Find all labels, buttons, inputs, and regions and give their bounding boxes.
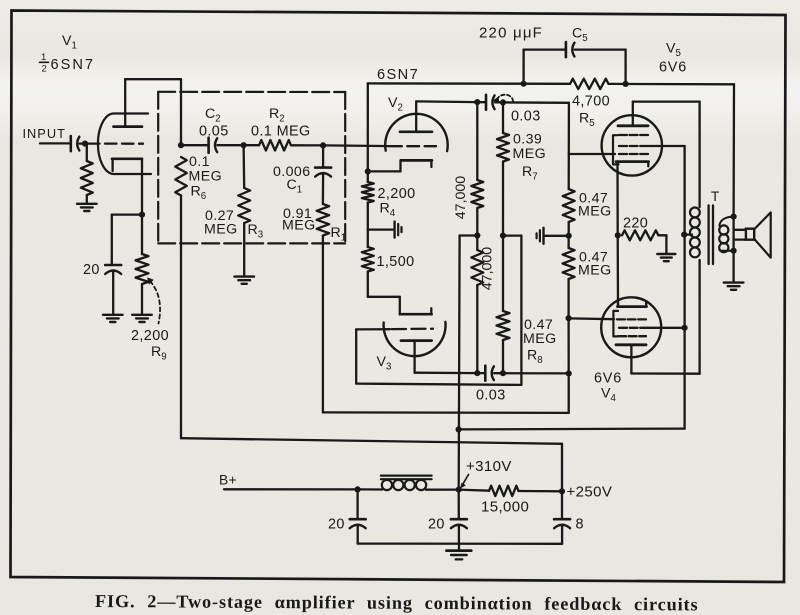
svg-text:1: 1 (41, 52, 46, 63)
V4 cathode (618, 302, 647, 306)
+310V arrow (460, 475, 469, 489)
ground 20uF (103, 315, 123, 322)
label 4,700 (572, 94, 610, 110)
wire to V2 grid (323, 144, 389, 147)
label INPUT (23, 126, 66, 141)
resistor 0.47MEG upper (563, 154, 575, 236)
svg-text:220: 220 (623, 216, 648, 232)
wire R6 bottom feedback line (181, 438, 562, 491)
label MEG (R3) (204, 222, 238, 238)
V5 grid bracket (613, 135, 619, 164)
wire C5 right leg (575, 50, 626, 84)
V3 plate lead (413, 341, 415, 373)
label 15,000 (481, 499, 529, 516)
node R7 top (500, 99, 506, 105)
label 0.47 upper (579, 191, 608, 207)
resistor 15000 (459, 486, 519, 496)
wire input lead (40, 142, 70, 144)
wire 15000 to +250 (519, 490, 563, 493)
caption (95, 591, 699, 614)
node secondary bottom (731, 248, 737, 254)
ground secondary (724, 283, 744, 290)
transformer secondary winding (719, 217, 733, 253)
V3 grid lead (356, 328, 390, 330)
wire 0.03 to corner (495, 101, 569, 104)
resistor R4 2200 (362, 171, 374, 229)
wire 20uF top lead (111, 215, 113, 264)
wire V1 grid (dashed) (88, 142, 143, 144)
resistor 0.47MEG lower (563, 236, 575, 318)
ground divider (sideways) (537, 228, 569, 244)
svg-text:MEG: MEG (513, 146, 547, 162)
V5 g3 dashes (619, 134, 648, 136)
V2 grid dashes (390, 145, 436, 147)
transformer primary winding (690, 208, 700, 258)
svg-text:INPUT: INPUT (23, 126, 66, 141)
V5 screen lead (649, 145, 685, 147)
wire down to line2 (568, 373, 570, 413)
tube V5 envelope (602, 115, 662, 175)
resistor R3 0.27MEG (238, 145, 250, 275)
resistor R7 0.39MEG (497, 102, 509, 235)
wire to 0.03 lower (477, 372, 485, 374)
resistor 47k lower (471, 236, 483, 374)
wire box left (V3 grid return) (355, 329, 357, 383)
svg-text:20: 20 (328, 517, 345, 533)
wire cathode junction to bypass cap (112, 213, 142, 215)
capacitor 0.03 bottom (485, 366, 494, 381)
svg-text:MEG: MEG (523, 331, 557, 347)
wire input cap to grid node (80, 142, 85, 144)
resistor R2 0.1MEG (259, 140, 291, 150)
R9 wiper dashed arrow (147, 277, 160, 323)
svg-text:MEG: MEG (578, 204, 612, 220)
V5 g1 dashes (619, 153, 648, 155)
node line3 left (456, 426, 462, 432)
V3 grid dashes (392, 328, 433, 331)
svg-text:B+: B+ (219, 473, 237, 488)
node C5 left (521, 81, 527, 87)
node 47k lower bottom (474, 370, 480, 376)
ground R9 (132, 315, 152, 322)
svg-text:47,000: 47,000 (480, 247, 496, 291)
label +250V (567, 484, 613, 501)
resistor R1 0.91MEG (317, 174, 330, 413)
resistor R6 0.1MEG (175, 157, 187, 438)
capacitor 20 ps-mid (451, 490, 467, 544)
wire 220 right (658, 235, 666, 253)
V4 g3 dashes (618, 335, 646, 337)
label C1 (287, 177, 303, 196)
label 2,200 (R4) (378, 186, 416, 202)
node V4 screen (682, 325, 688, 331)
label 6V6 (V4) (594, 371, 622, 387)
V5 plate bar (618, 124, 648, 127)
wire V3 plate to cap (415, 372, 478, 375)
svg-text:MEG: MEG (204, 222, 238, 238)
wire R2 to R1 node (291, 144, 323, 146)
label 0.03 top (511, 109, 541, 125)
wire to 0.03 cap (477, 101, 486, 103)
node 220 left (615, 232, 621, 238)
svg-text:15,000: 15,000 (481, 499, 529, 516)
svg-text:+310V: +310V (466, 458, 512, 475)
svg-text:47,000: 47,000 (453, 176, 469, 220)
svg-text:20: 20 (83, 262, 100, 278)
V4 plate lead (630, 345, 632, 374)
transformer primary lead top (698, 102, 700, 207)
wire node to C2 (181, 144, 209, 146)
resistor 220 (622, 230, 658, 240)
wire cathode bus to V4 (617, 235, 620, 306)
capacitor C2 0.05 (209, 138, 218, 153)
ground power supply (447, 544, 472, 560)
node R8 bottom (500, 370, 506, 376)
label 2,200 (R9) (131, 328, 169, 344)
label C5 (572, 26, 588, 45)
capacitor C5 220uuF (566, 42, 575, 57)
V5 grid lead (569, 153, 615, 155)
label V1 (62, 33, 77, 52)
V4 grid bracket (613, 311, 618, 337)
node +250V (559, 488, 565, 494)
wire long vertical to +310 (458, 236, 461, 490)
wire box bottom (356, 384, 521, 385)
capacitor 20 ps-left (350, 489, 366, 543)
label V5 (666, 41, 681, 60)
label MEG lower (578, 263, 612, 279)
wire V2 plate line (416, 100, 477, 103)
transformer core (709, 205, 713, 264)
label 1,500 (377, 254, 415, 270)
ground R4 (sideways) (368, 222, 402, 238)
label R4 (380, 201, 396, 220)
ground input grid resistor (77, 204, 97, 211)
V5 plate lead (632, 102, 634, 126)
label R7 (522, 164, 538, 183)
capacitor C1 0.006 (315, 145, 331, 176)
tube V3 envelope (384, 322, 446, 356)
wire center tap stub (684, 233, 692, 235)
wire to choke (358, 488, 383, 490)
dashed box (158, 92, 345, 244)
label 0.006 (273, 164, 311, 180)
label 0.03 bottom (476, 388, 506, 404)
wire node to R2 (244, 144, 259, 146)
node B+ split (355, 486, 361, 492)
resistor R9 2200 (136, 215, 149, 314)
label 0.47 (R8) (524, 317, 553, 333)
transformer primary lead bottom (698, 260, 700, 374)
V2 plate bar (400, 130, 432, 133)
wire choke to +310 (426, 488, 459, 490)
node R1/C1 top (320, 142, 326, 148)
node input grid junction (82, 141, 88, 147)
label 1/2 6SN7 (40, 52, 96, 75)
svg-text:2,200: 2,200 (131, 328, 169, 344)
dashed arc over cap (493, 95, 513, 103)
V4 g2 dashes (619, 327, 648, 329)
label R1 (331, 225, 347, 244)
label MEG (R1) (282, 218, 316, 234)
svg-text:6V6: 6V6 (594, 371, 622, 387)
node 47k junction (474, 232, 480, 238)
label V3 (377, 354, 392, 373)
choke winding (382, 480, 426, 490)
node R8 top (500, 233, 506, 239)
svg-text:MEG: MEG (578, 263, 612, 279)
node V1 cathode junction (139, 212, 145, 218)
V1 plate bar (114, 125, 143, 128)
tube V2 envelope (385, 114, 447, 151)
label MEG (R6) (189, 169, 223, 185)
svg-text:20: 20 (428, 517, 445, 533)
svg-text:6SN7: 6SN7 (377, 67, 419, 83)
V3 cathode bar (400, 308, 432, 314)
wire V1 cathode lead (141, 159, 143, 215)
label MEG (R8) (523, 331, 557, 347)
speaker leads (734, 230, 746, 240)
svg-text:0.03: 0.03 (511, 109, 541, 125)
wire line3 (459, 427, 685, 430)
V4 g1 dashes (617, 318, 646, 320)
choke core (381, 476, 432, 480)
svg-text:T: T (711, 189, 720, 204)
label 0.05 (199, 124, 229, 140)
node +310V (456, 487, 462, 493)
label 0.27 (R3) (205, 208, 234, 224)
wire feedback line2 (323, 411, 569, 414)
wire feedback rail left (367, 83, 369, 171)
wire R8 jog right (503, 236, 521, 385)
resistor 1500 (362, 230, 374, 297)
speaker cone (755, 212, 771, 257)
label 0.91 (R1) (283, 206, 312, 222)
svg-text:6V6: 6V6 (659, 60, 687, 76)
wire C5 left leg (524, 50, 566, 84)
node center tap (681, 232, 687, 238)
node divider mid (566, 233, 572, 239)
wire 20uF bottom lead (112, 271, 114, 314)
node C5 right (623, 81, 629, 87)
wire V5 plate line (633, 100, 700, 102)
wire V1 plate to R6 top (125, 79, 181, 145)
label 47,000 upper (453, 176, 469, 220)
label C2 (205, 106, 221, 125)
wire rail top (368, 82, 570, 85)
label 220 (623, 216, 648, 232)
svg-text:2: 2 (42, 64, 47, 75)
capacitor input coupling (71, 136, 80, 151)
svg-text:0.1 MEG: 0.1 MEG (251, 124, 311, 140)
svg-text:220 μμF: 220 μμF (479, 25, 543, 42)
label T (711, 189, 720, 204)
ground 220 (657, 254, 675, 261)
label V2 (388, 95, 403, 114)
label R3 (248, 222, 264, 241)
V2 plate lead (415, 101, 417, 131)
node 0.03 lower right (566, 370, 572, 376)
wire 0.03 to divider (494, 372, 569, 374)
V5 cathode lead (616, 162, 619, 236)
svg-text:1,500: 1,500 (377, 254, 415, 270)
label R6 (191, 184, 207, 203)
label 0.1 (R6) (189, 154, 210, 170)
wire cathode step to V3 (368, 297, 400, 314)
wire screen bus (683, 146, 685, 429)
label MEG upper (578, 204, 612, 220)
label 0.1 MEG (R2) (251, 124, 311, 140)
V4 plate bar (616, 343, 646, 346)
capacitor 8 (554, 491, 570, 544)
svg-text:MEG: MEG (189, 169, 223, 185)
tube V4 envelope (601, 297, 661, 357)
resistor 47k upper (471, 102, 483, 235)
label R8 (527, 348, 543, 367)
label 47,000 lower (480, 247, 496, 291)
wire corner down to V5 grid (568, 103, 570, 154)
wire V4 plate to transformer (631, 372, 699, 375)
V2 cathode (368, 160, 432, 171)
svg-text:FIG. 2—Two-stage αmplifier usi: FIG. 2—Two-stage αmplifier using combinα… (95, 591, 699, 614)
resistor R8 0.47MEG (497, 236, 510, 374)
label R5 (579, 111, 595, 130)
capacitor 0.03 top (486, 95, 495, 110)
ground R3 (234, 277, 254, 284)
label R2 (269, 106, 285, 125)
wire 47k jog left (460, 234, 478, 236)
label MEG (R7) (513, 146, 547, 162)
svg-text:+250V: +250V (567, 484, 613, 501)
V5 g2 dashes (619, 145, 649, 147)
V3 plate bar (401, 339, 432, 342)
label 0.47 lower (579, 250, 608, 266)
label 20 ps-left (328, 517, 345, 533)
label 8 (576, 517, 584, 533)
label R9 (151, 344, 167, 363)
svg-text:MEG: MEG (282, 218, 316, 234)
V4 screen lead (648, 327, 685, 329)
wire ground rail (358, 542, 562, 545)
node secondary top (731, 214, 737, 220)
node V4 grid (566, 315, 572, 321)
svg-text:0.05: 0.05 (199, 124, 229, 140)
node 47k no1 top (474, 99, 480, 105)
V5 cathode (616, 162, 649, 167)
node R6 top junction (178, 142, 184, 148)
wire secondary line (732, 84, 735, 281)
label 0.39 (R7) (513, 132, 542, 148)
node R3 top (241, 142, 247, 148)
wire B+ lead (224, 488, 358, 490)
label 220 uuF (479, 25, 543, 42)
svg-text:4,700: 4,700 (572, 94, 610, 110)
svg-text:8: 8 (576, 517, 584, 533)
tube V1 envelope (98, 114, 151, 175)
wire V4 grid lead (569, 317, 614, 320)
wire C2 to R3 node (217, 144, 243, 146)
capacitor 20 (V1 cathode bypass) (105, 265, 121, 274)
wire rail right (609, 83, 735, 86)
resistor R5 4700 (570, 79, 609, 89)
node V2 cathode junction (365, 168, 371, 174)
label +310V (466, 458, 512, 475)
label 6SN7 (377, 67, 419, 83)
speaker voice coil (746, 229, 754, 240)
label 20 ps-mid (428, 517, 445, 533)
label 6V6 (V5) (659, 60, 687, 76)
wire divider to 0.03 node (567, 318, 569, 373)
label B+ (219, 473, 237, 488)
label V4 (601, 386, 616, 405)
svg-text:0.03: 0.03 (476, 388, 506, 404)
V1 cathode (112, 159, 142, 171)
label 20 (V1 bypass) (83, 262, 100, 278)
V1 plate lead (124, 79, 126, 126)
resistor input grid leak (81, 144, 93, 203)
svg-text:6SN7: 6SN7 (51, 57, 96, 73)
